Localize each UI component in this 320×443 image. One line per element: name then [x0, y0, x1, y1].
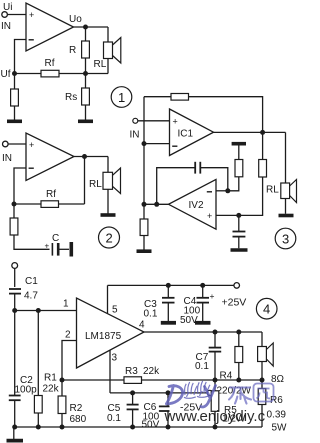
ground circuit 3 left [137, 249, 152, 253]
circled number 3 [275, 228, 296, 249]
wire R5 to ground rail [214, 411, 216, 427]
wire ground bar to resistor [238, 145, 240, 159]
op-amp IV2 (points left) [169, 179, 217, 229]
wire node up to feedback cap [200, 168, 227, 191]
wire C5 to ground rail [132, 409, 134, 427]
wire output column down [84, 157, 86, 205]
watermark stamp glyph le [229, 388, 251, 404]
svg-text:2: 2 [65, 330, 71, 341]
wire down to ground resistor [143, 204, 145, 219]
ground under C3 [161, 321, 176, 325]
node C5 top [130, 390, 135, 395]
svg-text:22k: 22k [43, 384, 60, 395]
ground above divider resistor [232, 142, 246, 146]
pin 4 label [139, 320, 145, 331]
pin 5 wire [107, 285, 109, 313]
svg-text:5W: 5W [272, 423, 288, 434]
node left column joint [142, 202, 147, 207]
svg-text:1: 1 [118, 90, 125, 105]
svg-text:IN: IN [2, 153, 12, 164]
op-amp IC1 [170, 109, 214, 156]
svg-text:+: + [210, 291, 215, 301]
ground right of C [70, 242, 74, 257]
output rail pin 4 [144, 331, 262, 333]
svg-text:RL: RL [89, 179, 102, 190]
wire resistor to IV2 + rail [216, 177, 263, 215]
node IV2 output [154, 202, 159, 207]
svg-text:C1: C1 [25, 276, 38, 287]
wire output Uo [74, 26, 109, 28]
resistor IV2 inverting leg [235, 160, 243, 177]
svg-text:+25V: +25V [222, 297, 247, 309]
node lower output [83, 71, 88, 76]
node C3 top [166, 283, 171, 288]
wire Rf to node [59, 73, 108, 75]
wire IC1 output [214, 131, 286, 133]
wire C4 to ground [202, 303, 204, 321]
wire R4 to feedback rail [238, 363, 240, 381]
wire C6 to ground rail [167, 411, 169, 427]
watermark hand glyphs [184, 381, 210, 398]
node IV2 inverting [225, 188, 230, 193]
wire C2 column [14, 311, 16, 396]
node Uf [12, 71, 17, 76]
svg-text:www.: www. [164, 408, 201, 425]
capacitor C circuit 2 [51, 243, 53, 256]
resistor to ground circuit 3 [140, 219, 148, 236]
capacitor to ground [233, 231, 246, 233]
bottom ground rail [15, 426, 262, 428]
svg-text:3: 3 [282, 232, 289, 247]
negative supply rail [110, 392, 207, 394]
svg-text:+: + [29, 10, 34, 20]
wire to speaker RL top [107, 27, 109, 42]
positive supply rail [108, 284, 234, 286]
node feedback circuit 2 [12, 202, 17, 207]
wire C3 [167, 285, 169, 297]
node IC1 inverting [142, 141, 147, 146]
wire C to ground [58, 248, 69, 250]
node R4 bottom [236, 378, 241, 383]
pin 1 label [63, 299, 69, 310]
wire R2 [61, 380, 63, 396]
ground under Rs [78, 120, 93, 124]
input terminal circuit 1 [2, 12, 8, 18]
capacitor C4 electrolytic [197, 297, 210, 299]
svg-text:Rf: Rf [46, 189, 56, 200]
capacitor C2 [9, 395, 21, 397]
node IV2 + input [236, 213, 241, 218]
wire Uf to Rf [15, 73, 42, 75]
wire C5 [132, 393, 134, 404]
watermark letter Y [201, 386, 216, 407]
input terminal circuit 3 [133, 118, 138, 123]
svg-text:0.39: 0.39 [267, 410, 287, 421]
feedback resistor circuit 3 [171, 94, 189, 101]
capacitor C1 [9, 288, 21, 290]
ground under C4 [195, 321, 211, 325]
wire to speaker 2 [107, 157, 109, 173]
speaker RL circuit 2 [103, 172, 113, 189]
input terminal circuit 2 [3, 141, 9, 147]
wire C4 [202, 285, 204, 297]
wire speaker 3 to ground [285, 199, 287, 214]
svg-text:4: 4 [263, 302, 270, 317]
node C7 top [213, 330, 218, 335]
node C6 top [166, 390, 171, 395]
ground under speaker 2 [101, 213, 116, 217]
node output circuit 2 [82, 154, 87, 159]
resistor Rf circuit 2 [41, 201, 59, 208]
node Ui label [3, 2, 12, 13]
wire terminal to C1 [14, 268, 16, 287]
svg-text:4: 4 [139, 320, 145, 331]
wire R1 column [37, 311, 39, 396]
wire R4 [238, 332, 240, 347]
wire IC1 output node down [262, 132, 264, 159]
wire speaker RL bottom [107, 59, 109, 74]
wire C6 [167, 393, 169, 406]
wire node to Rs [85, 74, 87, 89]
resistor output divider [259, 160, 267, 178]
resistor R1 [34, 396, 42, 414]
svg-text:+: + [45, 242, 50, 251]
resistor Rf [41, 70, 59, 77]
feedback rail [62, 379, 262, 381]
resistor R4 [235, 347, 243, 363]
wire IV2 output to left column [144, 203, 169, 205]
watermark letter D [167, 386, 183, 404]
node IN label [1, 21, 11, 32]
svg-text:Uo: Uo [69, 14, 82, 25]
resistor R5 [214, 380, 216, 391]
wire left vertical to inverting input [143, 97, 145, 205]
feedback capacitor IV2 [194, 162, 196, 174]
svg-text:R3: R3 [125, 366, 138, 377]
svg-text:+: + [173, 117, 178, 127]
wire to resistor R [85, 27, 87, 41]
wire op-amp 2 output [74, 156, 108, 158]
svg-text:22k: 22k [143, 366, 160, 377]
circled number 2 [99, 227, 120, 248]
resistor R3 [124, 377, 142, 384]
node pin2/R2 [60, 378, 65, 383]
svg-text:R1: R1 [44, 373, 57, 384]
wire Rs to ground [85, 105, 87, 120]
resistor Rs [82, 88, 90, 105]
svg-text:8Ω: 8Ω [271, 374, 285, 385]
svg-text:100p: 100p [15, 385, 38, 396]
svg-text:IV2: IV2 [189, 200, 204, 211]
watermark stamp glyph yuan [254, 384, 274, 402]
svg-text:enjoydiy.c: enjoydiy.c [200, 408, 266, 425]
capacitor C7 [209, 347, 222, 349]
svg-text:0.1: 0.1 [107, 413, 121, 424]
svg-text:C: C [52, 233, 59, 244]
wire node to Rf2 [14, 203, 41, 205]
wire resistor to C [14, 235, 50, 249]
svg-text:IN: IN [1, 21, 11, 32]
capacitor C6 electrolytic [159, 405, 170, 407]
wire input to op-amp 2 [8, 143, 26, 145]
svg-text:4.7: 4.7 [24, 291, 38, 302]
-25V terminal [207, 390, 212, 395]
wire C2 to ground rail [14, 400, 16, 427]
wire resistor to IV2 inverting node [228, 177, 239, 191]
svg-text:3: 3 [112, 353, 118, 364]
wire rail to output corner [189, 97, 263, 133]
node R1 top [36, 308, 41, 313]
speaker RL circuit 1 [104, 42, 113, 59]
input terminal circuit 4 [12, 263, 18, 269]
wire C7 [214, 332, 216, 347]
wire C3 to ground [167, 303, 169, 321]
input rail to pin 1 [15, 310, 77, 312]
svg-text:50V: 50V [142, 420, 160, 431]
capacitor C3 [162, 297, 175, 299]
resistor R [82, 41, 90, 58]
svg-text:Rf: Rf [45, 58, 55, 69]
wire C7 to feedback rail [214, 352, 216, 380]
ground symbol bottom left [13, 427, 15, 439]
node IC1 output [260, 130, 265, 135]
resistor below node 2 [13, 204, 15, 218]
svg-text:+: + [29, 140, 34, 150]
speaker circuit 4 [258, 347, 267, 362]
svg-text:R: R [69, 45, 76, 56]
wire speaker 4 bottom [261, 362, 263, 381]
watermark url www [164, 408, 201, 425]
op-amp LM1875 [77, 298, 145, 368]
node C7/R5 [213, 378, 218, 383]
wire resistor to ground [143, 236, 145, 250]
wire input to IC1 [138, 120, 170, 122]
pin 3 wire [109, 350, 111, 393]
pin 2 wire [62, 341, 77, 381]
svg-text:R2: R2 [70, 403, 83, 414]
+25V terminal [234, 283, 240, 289]
svg-text:+: + [207, 211, 212, 221]
wire IV2 inverting input [216, 190, 228, 192]
op-amp U2 [26, 133, 74, 181]
svg-text:RL: RL [94, 59, 107, 70]
wire output to speaker 3 [285, 132, 287, 183]
wire speaker 4 top [261, 332, 263, 347]
svg-text:IC1: IC1 [178, 129, 194, 140]
resistor R6 [261, 380, 263, 389]
capacitor C5 [127, 404, 139, 406]
resistor under Uf [14, 76, 16, 90]
wire node to cap [238, 215, 240, 231]
node R4 top [236, 330, 241, 335]
node input rail left [12, 308, 17, 313]
wire inverting input down [14, 168, 26, 204]
wire C1 to input node [14, 294, 16, 311]
wire R6 to ground rail [261, 405, 263, 428]
circled number 4 [256, 298, 277, 319]
wire IC1 inverting input [144, 143, 170, 145]
op-amp U1 [26, 3, 74, 51]
svg-text:IN: IN [130, 130, 140, 141]
speaker RL circuit 3 [281, 183, 290, 199]
wire input to op-amp [7, 14, 26, 16]
rail junction dots [12, 425, 17, 430]
wire inverting input to Uf node [15, 40, 27, 74]
svg-text:0.1: 0.1 [144, 309, 158, 320]
svg-text:Uf: Uf [1, 69, 11, 80]
wire speaker 2 to ground [107, 189, 109, 213]
ground under speaker 3 [279, 214, 294, 218]
watermark url enjoydiy [200, 408, 266, 425]
svg-text:1: 1 [63, 299, 69, 310]
feedback top rail [144, 96, 171, 98]
wire R to node [85, 58, 87, 74]
svg-text:2: 2 [106, 231, 113, 246]
wire cap to IV2 output column [157, 168, 196, 205]
node speaker bottom [260, 378, 265, 383]
svg-text:RL: RL [266, 185, 279, 196]
svg-text:0.1: 0.1 [195, 361, 209, 372]
ground under cap [231, 248, 248, 252]
svg-text:Rs: Rs [65, 92, 77, 103]
resistor R2 [58, 396, 66, 414]
wire R1 to ground rail [37, 413, 39, 427]
wire Rf2 to output column [59, 203, 85, 205]
ground under Uf resistor [7, 120, 22, 124]
svg-text:LM1875: LM1875 [85, 331, 122, 342]
svg-text:680: 680 [70, 414, 87, 425]
circled number 1 [111, 87, 132, 108]
svg-text:5: 5 [112, 305, 118, 316]
node Uo [83, 25, 88, 30]
wire cap to ground [238, 237, 240, 249]
wire to ground [14, 106, 16, 120]
node C4 top [200, 283, 205, 288]
